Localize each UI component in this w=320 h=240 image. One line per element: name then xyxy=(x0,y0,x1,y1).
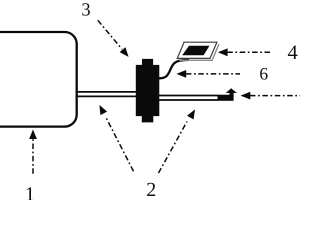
callout arrow to coil (for label 3) xyxy=(98,20,129,57)
callout arrow to tank (for label 1) xyxy=(29,130,37,174)
rod end up-arrow 5 xyxy=(218,88,237,100)
drive wire 6 (S-curve from coil to plate) xyxy=(159,60,188,78)
tank body 1 (rounded vessel, cut off at left) xyxy=(0,32,77,127)
svg-text:1: 1 xyxy=(25,183,35,200)
callout arrow to rod end (right edge, unlabeled) xyxy=(241,92,302,100)
coil bobbin 3 (solid black with tabs) xyxy=(136,59,160,123)
callout arrow to plate (for label 4) xyxy=(218,48,272,56)
svg-text:2: 2 xyxy=(146,179,156,200)
wire (right rod segment, double line) xyxy=(158,96,219,101)
callout arrow to left rod (for label 2, left) xyxy=(99,105,133,171)
callout arrow to right rod (for label 2, right) xyxy=(159,109,196,173)
svg-text:6: 6 xyxy=(259,64,268,84)
wire (left rod segment, double line) xyxy=(76,92,139,97)
plate device 4 thickness edge xyxy=(179,44,219,60)
svg-text:4: 4 xyxy=(287,42,297,64)
plate device 4 (white parallelogram plate) xyxy=(177,42,217,58)
plate device 4 inner black panel xyxy=(182,46,209,56)
callout arrow to drive wire (for label 6) xyxy=(176,70,240,78)
svg-text:3: 3 xyxy=(81,0,90,20)
